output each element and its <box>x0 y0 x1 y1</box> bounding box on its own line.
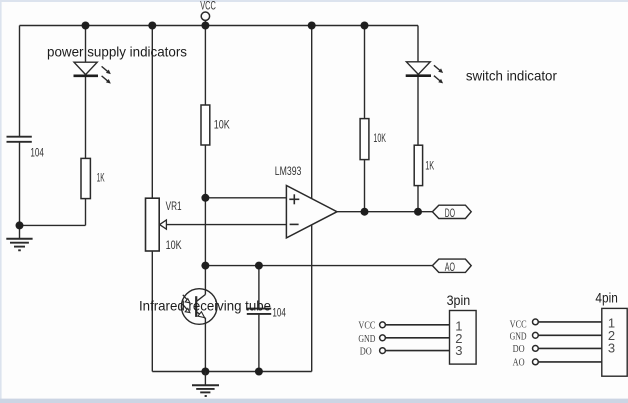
connector J2 4pin <box>510 289 628 376</box>
svg-text:VR1: VR1 <box>166 199 182 213</box>
terminal circle VCC (J2) <box>533 319 539 325</box>
resistor R3 10K <box>360 119 369 160</box>
svg-text:AO: AO <box>445 260 455 274</box>
wire comparator output DO net <box>337 211 432 213</box>
resistor R1 1K <box>81 158 90 198</box>
wire noninverting input <box>205 197 286 199</box>
terminal circle DO (J2) <box>533 346 539 352</box>
wire inverting input from VR1 wiper <box>166 224 287 226</box>
svg-text:1K: 1K <box>97 171 105 185</box>
node junction (top rail / LED1) <box>82 22 90 30</box>
terminal circle VCC (J1) <box>380 322 386 328</box>
wire J1 DO <box>386 350 450 352</box>
terminal circle GND (J2) <box>533 332 539 338</box>
svg-text:VCC: VCC <box>200 0 216 13</box>
node junction (top rail / R3) <box>361 22 369 30</box>
wire J2 VCC <box>538 321 601 323</box>
svg-text:3: 3 <box>608 341 615 356</box>
wire J1 VCC <box>386 324 450 326</box>
node junction (top rail / middle branch) <box>308 22 316 30</box>
svg-text:3pin: 3pin <box>447 292 471 308</box>
LED D2 switch indicator <box>406 62 443 84</box>
wire R3 top <box>364 26 366 119</box>
phototransistor Q1 infrared receiving tube <box>181 289 217 325</box>
op-amp U1 LM393 <box>286 186 337 238</box>
node junction (bottom rail / Q1) <box>201 368 209 376</box>
terminal circle GND (J1) <box>380 335 386 341</box>
wire VR1 top <box>151 26 153 199</box>
node junction (bottom rail / C2) <box>255 368 263 376</box>
svg-text:VCC: VCC <box>510 319 527 331</box>
wire LED2 cathode to R4 <box>417 76 419 146</box>
node junction (AO branch) <box>201 262 209 270</box>
wire cap1 to R1 bottom <box>20 224 86 226</box>
wire R1 to node <box>85 199 87 226</box>
svg-text:104: 104 <box>272 305 286 319</box>
wire bottom ground rail <box>152 371 311 373</box>
wire J1 GND <box>386 337 450 339</box>
connector J1 3pin <box>358 292 476 364</box>
wire left column upper <box>19 26 21 137</box>
wire J2 DO <box>538 347 601 349</box>
wire cap2 top <box>258 266 260 309</box>
wire middle vertical VCC branch <box>311 26 313 372</box>
LED D1 power supply indicator <box>74 62 111 83</box>
ground (left) <box>6 239 32 251</box>
node junction (noninverting input) <box>201 194 209 202</box>
wire LED2 anode <box>417 26 419 62</box>
net tag DO <box>432 205 471 220</box>
wire R2 to phototransistor collector <box>204 145 206 295</box>
svg-text:104: 104 <box>30 146 44 160</box>
wire J2 AO <box>538 361 601 363</box>
resistor R4 1K <box>414 145 422 185</box>
resistor R2 10K <box>201 105 210 145</box>
capacitor C2 104 <box>247 309 271 314</box>
terminal circle AO (J2) <box>533 359 539 365</box>
svg-text:10K: 10K <box>214 118 230 132</box>
svg-text:Infrared receiving tube: Infrared receiving tube <box>139 297 271 313</box>
svg-text:switch indicator: switch indicator <box>466 68 557 84</box>
svg-text:VCC: VCC <box>358 320 375 332</box>
terminal circle DO (J1) <box>380 348 386 354</box>
wire cap2 bottom <box>258 314 260 372</box>
svg-text:GND: GND <box>510 330 527 342</box>
capacitor C1 104 <box>7 137 32 142</box>
wire VCC terminal to R2 <box>204 21 206 105</box>
node junction (top rail / R2 VCC) <box>201 22 209 30</box>
wire top VCC rail <box>20 25 419 27</box>
svg-text:DO: DO <box>513 343 525 355</box>
svg-text:10K: 10K <box>166 238 182 252</box>
wire AO net <box>205 265 432 267</box>
net tag AO <box>432 259 471 274</box>
svg-text:AO: AO <box>513 357 525 369</box>
wire R4 to DO node <box>417 186 419 212</box>
node junction (top rail / VR1) <box>148 22 156 30</box>
wire LED1 anode <box>85 26 87 63</box>
svg-text:3: 3 <box>455 343 462 358</box>
ground (main) <box>192 372 219 397</box>
svg-text:GND: GND <box>358 333 375 345</box>
svg-text:10K: 10K <box>373 131 386 145</box>
svg-text:DO: DO <box>445 206 455 220</box>
VCC terminal <box>201 12 209 20</box>
svg-text:LM393: LM393 <box>275 164 302 178</box>
node junction (DO / R3) <box>361 208 369 216</box>
wire left column lower <box>19 142 21 238</box>
svg-text:1K: 1K <box>425 158 434 172</box>
potentiometer VR1 10K <box>146 198 167 251</box>
wire VR1 bottom <box>151 251 153 372</box>
node junction (AO / C2) <box>255 262 263 270</box>
svg-text:DO: DO <box>360 346 372 358</box>
wire phototransistor emitter down <box>204 318 206 372</box>
wire LED1 cathode to R1 <box>85 76 87 159</box>
wire J2 GND <box>538 334 601 336</box>
node junction (C1/R1 bottom) <box>16 221 24 229</box>
svg-text:4pin: 4pin <box>595 289 617 305</box>
node junction (DO / R4) <box>414 208 422 216</box>
svg-text:power supply indicators: power supply indicators <box>47 44 187 60</box>
wire R3 to DO node <box>364 160 366 212</box>
